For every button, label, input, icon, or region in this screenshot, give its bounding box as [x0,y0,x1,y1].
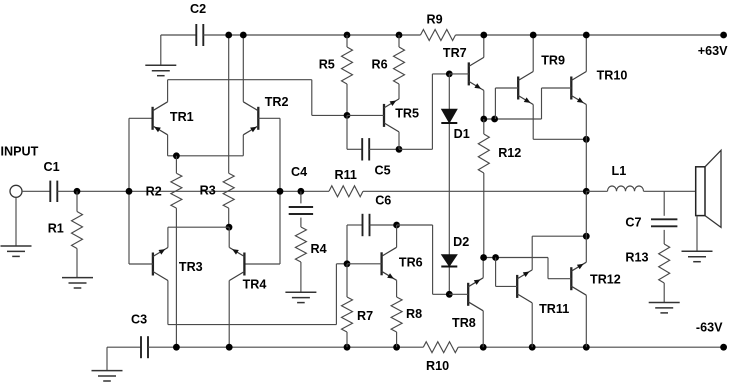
node junction [344,260,351,267]
label TR6 [399,256,423,270]
svg-text:R8: R8 [406,307,422,321]
wire [532,105,534,140]
label TR12 [590,273,621,287]
ground [62,278,93,288]
speaker LS1 [696,150,721,227]
wire [242,35,244,102]
label R8 [406,307,422,321]
wire [398,132,400,149]
wire [448,268,450,295]
node junction [530,32,537,39]
wire [160,35,162,65]
wire [531,303,533,347]
wire [106,347,108,370]
svg-text:R1: R1 [48,222,64,236]
transistor TR9 [518,72,533,105]
node junction [583,32,590,39]
label C1 [44,160,60,174]
wire [496,285,518,287]
node junction [74,188,81,195]
wire [129,117,153,119]
wire [168,324,337,326]
wire [482,311,484,347]
diode D1 [441,109,457,123]
svg-text:R9: R9 [427,13,443,27]
transistor TR1 [153,102,168,135]
transistor TR4 [229,248,244,281]
wire +63V rail [203,34,420,36]
capacitor C3 [141,336,148,358]
label R3 [200,184,216,198]
capacitor C1 [50,181,57,202]
wire [300,191,302,203]
resistor R13 [659,244,670,303]
wire [347,224,363,226]
wire [370,224,397,226]
transistor TR2 [243,102,258,135]
svg-text:TR11: TR11 [539,302,569,316]
wire [448,74,450,109]
label L1 [612,164,627,178]
svg-text:TR10: TR10 [597,69,628,83]
node junction [393,344,400,351]
label TR7 [443,46,467,60]
label +63V [698,44,728,58]
wire [531,236,533,270]
label D2 [453,235,469,249]
transistor TR11 [517,270,532,303]
wire [482,258,484,278]
diode D2 [441,255,457,267]
wire [495,258,497,287]
wire [483,35,485,57]
wire [541,88,543,119]
svg-text:R13: R13 [625,251,648,265]
resistor R8 [391,297,402,347]
wire [663,191,665,216]
wire [300,218,302,227]
svg-text:R12: R12 [498,146,521,160]
wire [347,148,362,150]
svg-text:TR12: TR12 [590,273,621,287]
wire [347,263,382,265]
node junction [480,32,487,39]
svg-text:TR3: TR3 [179,260,203,274]
wire [532,235,586,237]
svg-text:C4: C4 [291,165,307,179]
node junction [583,344,590,351]
label R12 [498,146,521,160]
wire [548,278,571,280]
wire [396,280,398,297]
node INPUT terminal [10,185,22,197]
wire [484,118,542,120]
label R6 [372,58,388,72]
svg-text:L1: L1 [612,164,627,178]
node junction [226,344,233,351]
wire [336,263,347,265]
node junction [480,254,487,261]
resistor R10 [423,342,458,353]
wire [311,80,313,116]
svg-text:R10: R10 [426,359,449,373]
wire [585,105,587,192]
node junction [583,136,590,143]
svg-text:R2: R2 [146,185,162,199]
wire [696,216,698,252]
wire [644,190,696,192]
wire [346,225,348,264]
wire [346,115,348,149]
label -63V [696,321,723,335]
wire [431,74,433,149]
svg-text:R3: R3 [200,184,216,198]
wire [399,148,432,150]
wire [494,88,496,119]
svg-text:TR1: TR1 [170,110,194,124]
label TR9 [541,54,565,68]
node junction [344,344,351,351]
svg-text:C3: C3 [131,313,147,327]
transistor TR12 [571,262,586,295]
node junction [225,32,232,39]
resistor R6 [394,35,405,99]
wire [532,35,534,72]
wire [585,191,587,236]
label C5 [375,164,391,178]
svg-text:D2: D2 [453,235,469,249]
svg-text:C6: C6 [375,194,391,208]
label TR11 [539,302,569,316]
wire [369,148,399,150]
wire -63V rail [148,346,423,348]
label C2 [190,2,206,16]
label C4 [291,165,307,179]
wire [167,281,169,325]
node junction [173,152,180,159]
wire [335,264,337,325]
label C3 [131,313,147,327]
wire [533,138,586,140]
label R2 [146,185,162,199]
wire [22,190,50,192]
svg-text:+63V: +63V [698,44,728,58]
label R4 [311,242,327,256]
node junction [126,188,133,195]
resistor R2 [171,156,182,347]
svg-text:C7: C7 [625,216,641,230]
label TR1 [170,110,194,124]
node junction [344,32,351,39]
resistor R1 [72,191,83,277]
capacitor C7 [651,219,677,226]
inductor L1 [608,186,644,191]
label R13 [625,251,648,265]
svg-text:C2: C2 [190,2,206,16]
node junction [226,224,233,231]
svg-text:TR8: TR8 [452,316,476,330]
wire [161,34,197,36]
ground [682,251,713,261]
node junction [491,116,498,123]
wire [448,124,450,255]
label TR8 [452,316,476,330]
wire [167,135,169,156]
svg-text:-63V: -63V [696,321,723,335]
node junction [173,344,180,351]
resistor R12 [478,119,489,258]
svg-text:D1: D1 [454,127,470,141]
wire [15,197,17,246]
wire [279,118,281,264]
svg-text:INPUT: INPUT [1,145,39,159]
node junction [298,188,305,195]
wire +63V rail [456,34,724,36]
label TR10 [597,69,628,83]
wire [312,114,347,116]
label R11 [335,168,357,182]
transistor TR8 [468,278,483,311]
ground [285,292,316,302]
capacitor C4 [289,207,313,214]
node junction [583,233,590,240]
label TR2 [265,95,289,109]
capacitor C5 [362,138,369,160]
wire [432,225,434,294]
wire [585,295,587,347]
label C7 [625,216,641,230]
wire [433,293,450,295]
ground [649,303,680,313]
resistor R3 [223,35,234,227]
label TR5 [395,107,419,121]
node junction [277,188,284,195]
node junction [240,32,247,39]
wire [495,87,518,89]
node junction [529,344,536,351]
node +63V terminal [720,32,727,39]
wire [483,90,485,119]
node junction [396,32,403,39]
wire [586,190,607,192]
wire [244,263,280,265]
label C6 [375,194,391,208]
resistor R9 [421,30,456,41]
resistor R7 [342,264,353,347]
label R9 [427,13,443,27]
label R1 [48,222,64,236]
resistor R11 [329,186,363,197]
wire [347,114,384,116]
ground [145,65,176,75]
transistor TR7 [469,57,484,90]
svg-text:TR2: TR2 [265,95,289,109]
wire [228,281,230,348]
label TR4 [243,278,267,292]
wire [242,135,244,156]
svg-text:C1: C1 [44,160,60,174]
svg-text:TR6: TR6 [399,256,423,270]
wire [585,35,587,72]
svg-text:R7: R7 [357,309,373,323]
transistor TR3 [153,248,168,281]
wire [396,225,398,247]
wire [483,257,548,259]
svg-text:C5: C5 [375,164,391,178]
node junction [396,146,403,153]
wire [449,293,468,295]
transistor TR5 [384,99,399,132]
node junction [393,222,400,229]
node -63V terminal [720,344,727,351]
node junction [446,71,453,78]
wire [228,227,230,247]
resistor R4 [295,227,306,292]
label R10 [426,359,449,373]
wire [258,117,280,119]
wire [128,118,130,264]
wire -63V rail [458,346,723,348]
wire [57,190,329,192]
label TR3 [179,260,203,274]
ground [1,246,32,256]
wire [167,227,169,247]
wire [449,73,469,75]
transistor TR10 [571,72,586,105]
wire [397,224,433,226]
wire [542,87,572,89]
capacitor C2 [196,24,203,46]
svg-text:R4: R4 [311,242,327,256]
node junction [446,291,453,298]
label R7 [357,309,373,323]
svg-text:TR9: TR9 [541,54,565,68]
wire [363,190,586,192]
svg-text:R5: R5 [319,58,335,72]
wire [168,155,244,157]
wire [167,80,169,102]
wire [168,226,229,228]
node junction [480,116,487,123]
node junction [344,112,351,119]
wire [129,263,153,265]
wire [168,79,312,81]
label R5 [319,58,335,72]
capacitor C6 [363,214,370,236]
wire [585,236,587,262]
svg-text:TR4: TR4 [243,278,267,292]
svg-text:TR5: TR5 [395,107,419,121]
wire [547,258,549,279]
wire [432,73,449,75]
svg-text:TR7: TR7 [443,46,467,60]
ground [92,371,123,381]
node output junction [583,188,590,195]
label D1 [454,127,470,141]
transistor TR6 [382,247,397,280]
wire [663,230,665,244]
node junction [480,344,487,351]
node junction [492,254,499,261]
label INPUT [1,145,39,159]
svg-text:R6: R6 [372,58,388,72]
wire [107,346,141,348]
svg-text:R11: R11 [335,168,357,182]
resistor R5 [342,35,353,115]
